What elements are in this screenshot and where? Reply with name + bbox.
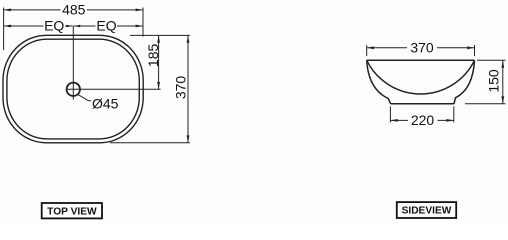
dimension line 370 (top view) [187,35,189,142]
side view: extension line left of 370 dim [366,45,368,56]
extension line right of 220 dim [453,106,455,122]
arrowhead sv370 left [367,46,374,49]
side view dimension line 370 [367,47,475,49]
arrowhead sv370 right [467,46,474,49]
svg-text:150: 150 [485,69,501,93]
arrowhead 220 right [446,119,453,122]
svg-text:370: 370 [410,39,434,55]
arrowhead EQ far left [4,25,11,28]
top view: extension line left of 485 dim [3,8,5,51]
top view: extension line right of 485 dim [142,8,144,37]
svg-text:220: 220 [411,112,435,128]
svg-text:370: 370 [173,76,189,100]
arrowhead 185 bottom [157,82,160,89]
side view: extension line right of 370 dim [474,45,476,56]
svg-text:185: 185 [145,44,161,68]
svg-text:SIDEVIEW: SIDEVIEW [402,206,452,217]
TOP VIEW label box [42,203,102,218]
arrowhead 485 left [4,9,11,12]
bowl inner arc (side view) [367,60,475,94]
svg-text:485: 485 [62,2,86,18]
arrowhead EQ center pointing left [74,25,80,27]
vertical centerline of basin top view [72,26,74,100]
extension line at oval bottom for 370 dim [110,142,190,144]
basin rim line (side view) [367,59,475,61]
svg-text:EQ: EQ [44,18,64,34]
foot base line [391,103,454,105]
arrowhead 485 right [136,9,143,12]
dimension line 485 [4,9,143,11]
arrowhead 185 top [157,35,160,42]
extension line at oval top for 185/370 dims [130,34,190,36]
outer wall left + foot left [367,60,391,104]
dimension line 185 [158,35,160,89]
leader line for hole diameter [78,95,91,101]
arrowhead 150 bottom [501,96,504,103]
dimension line 150 [502,60,504,104]
extension line left of 220 dim [389,106,391,122]
dimension line 220 [390,119,453,121]
drain hole horizontal crosshair / extension to 185 dim [66,88,160,90]
arrowhead 150 top [501,60,504,67]
arrowhead EQ far right [136,25,143,28]
svg-text:TOP VIEW: TOP VIEW [47,206,97,217]
outer wall right + foot right [454,60,475,104]
arrowhead 370 top [187,35,190,42]
drain hole circle [67,83,80,96]
arrowhead EQ center pointing right [66,25,72,27]
extension line top for 150 dim [477,59,506,61]
basin inner rim (top view oval) [7,39,139,139]
arrowhead 370 bottom [187,135,190,142]
svg-text:Ø45: Ø45 [92,95,119,111]
basin outer rim (top view oval) [3,35,143,143]
dimension line EQ EQ [4,25,143,27]
svg-text:EQ: EQ [96,18,116,34]
SIDEVIEW label box [397,202,456,218]
extension line bottom for 150 dim [465,103,506,105]
arrowhead 220 left [390,119,397,122]
